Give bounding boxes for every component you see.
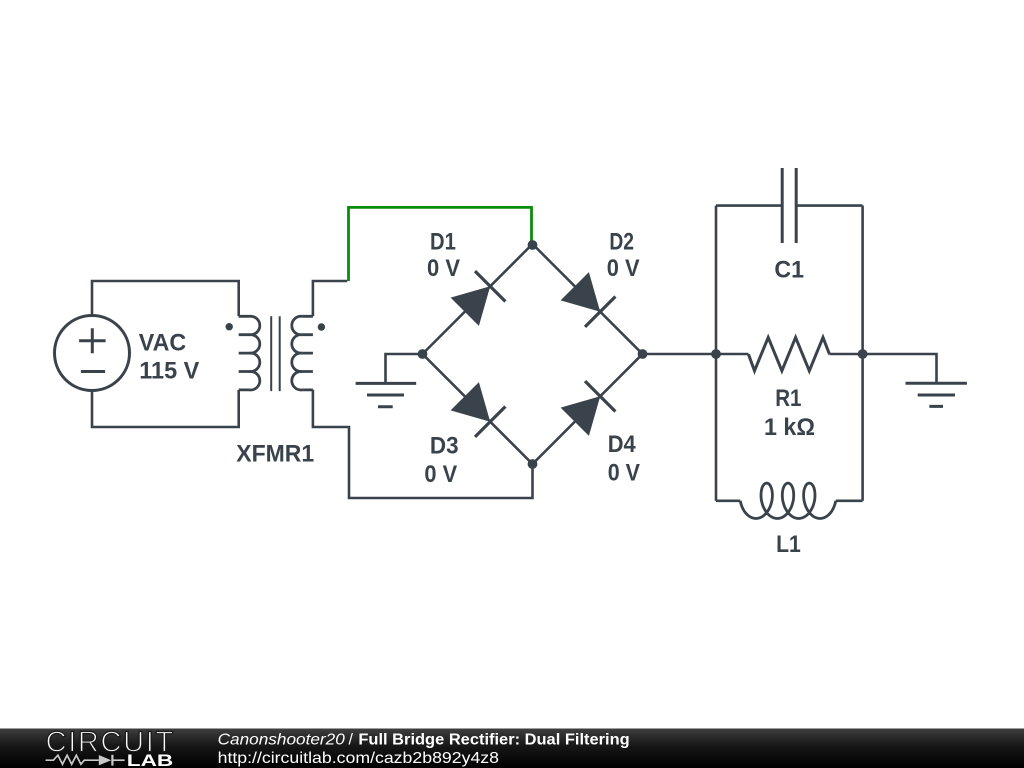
svg-text:L1: L1 [776,531,801,558]
svg-text:C1: C1 [774,257,804,284]
svg-text:XFMR1: XFMR1 [236,440,314,467]
svg-text:http://circuitlab.com/cazb2b89: http://circuitlab.com/cazb2b892y4z8 [218,750,500,767]
svg-text:D3: D3 [430,432,459,459]
svg-text:D2: D2 [609,229,634,256]
svg-text:0 V: 0 V [608,460,641,487]
svg-text:Canonshooter20: Canonshooter20 [218,732,345,749]
svg-text:LAB: LAB [127,751,173,768]
svg-text:0 V: 0 V [607,255,640,282]
svg-text:1 kΩ: 1 kΩ [764,414,815,441]
svg-text:D4: D4 [608,431,636,458]
svg-text:VAC: VAC [139,329,187,356]
svg-text:Full Bridge Rectifier: Dual Fi: Full Bridge Rectifier: Dual Filtering [358,732,629,749]
svg-text:115 V: 115 V [139,358,200,385]
svg-text:D1: D1 [430,229,456,256]
svg-text:0 V: 0 V [424,461,457,488]
svg-text:/: / [349,732,354,749]
svg-text:0 V: 0 V [427,255,461,282]
svg-text:R1: R1 [775,385,801,412]
